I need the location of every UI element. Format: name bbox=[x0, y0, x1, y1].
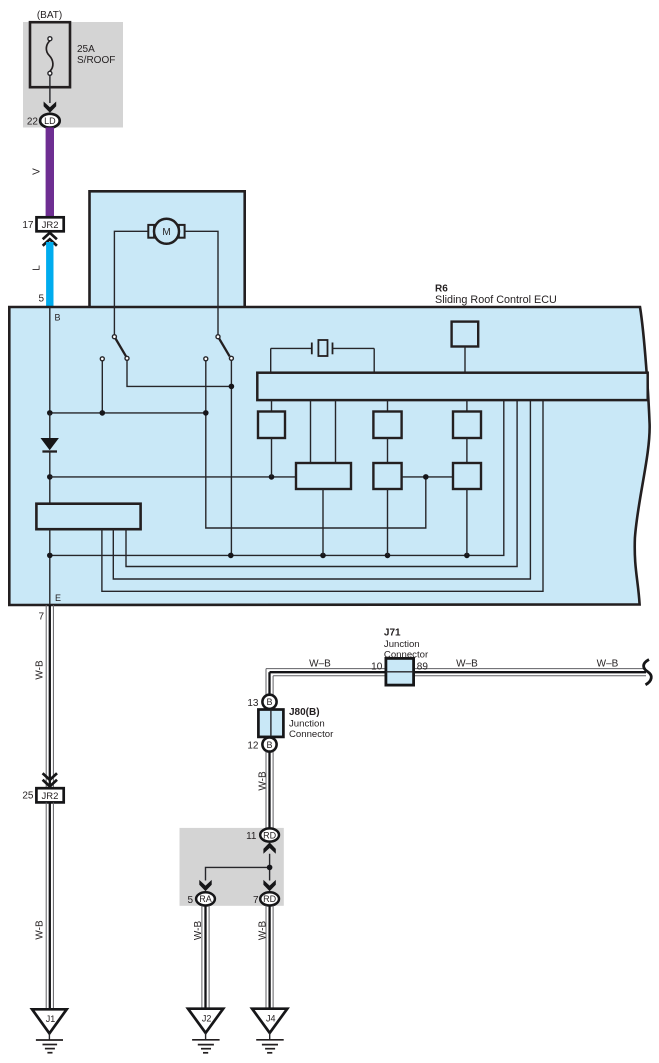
box U3 bbox=[258, 412, 285, 439]
svg-text:J80(B): J80(B) bbox=[289, 707, 320, 718]
junction branch bbox=[267, 865, 273, 871]
svg-text:RD: RD bbox=[263, 894, 276, 904]
wire W-B horizontal run bbox=[266, 669, 646, 676]
wire bus to U3 bbox=[271, 400, 273, 411]
svg-text:(BAT): (BAT) bbox=[37, 10, 62, 21]
connector arrow into LD bbox=[44, 102, 57, 113]
wire diode row horizontal bbox=[50, 476, 296, 478]
ECU R6 box bbox=[9, 307, 649, 605]
wire to diode bbox=[49, 413, 51, 438]
wire U2 loop b bbox=[113, 400, 530, 579]
svg-text:7: 7 bbox=[38, 612, 44, 623]
svg-text:M: M bbox=[162, 227, 170, 238]
connector arrow into RA5 bbox=[199, 880, 211, 891]
shield gray box bbox=[180, 828, 284, 906]
pin B wire bbox=[49, 307, 51, 413]
svg-text:S/ROOF: S/ROOF bbox=[77, 55, 115, 66]
wire U8 to bus bbox=[464, 347, 466, 373]
svg-text:B: B bbox=[266, 740, 272, 750]
motor M1 bbox=[148, 219, 184, 244]
wire E pin down bbox=[49, 529, 51, 605]
junction loop tap bbox=[423, 474, 429, 480]
svg-text:89: 89 bbox=[417, 661, 429, 672]
wire U7 to U9 bbox=[466, 438, 468, 463]
junction connector J80(B) bbox=[258, 710, 283, 737]
box U7 bbox=[453, 412, 481, 439]
connector arrow up into RD11 bbox=[263, 842, 275, 853]
wire RD11 branch bbox=[206, 854, 270, 881]
fuse 25A S/ROOF bbox=[30, 22, 115, 87]
junction B row bbox=[47, 410, 53, 416]
chevron into JR2 lower bbox=[43, 773, 57, 786]
wire U2 loop c bbox=[102, 400, 543, 591]
junction JR2 (top) bbox=[37, 217, 64, 231]
bus bar bbox=[257, 373, 647, 400]
ground J1 bbox=[32, 1009, 67, 1052]
svg-text:5: 5 bbox=[38, 294, 44, 305]
svg-text:LD: LD bbox=[44, 116, 56, 126]
svg-text:7: 7 bbox=[253, 895, 259, 906]
svg-text:13: 13 bbox=[247, 698, 259, 709]
svg-text:Junction: Junction bbox=[289, 718, 325, 729]
wire W-B pin7 lower bbox=[46, 802, 53, 1010]
wire SW1 fixed contact down bbox=[101, 361, 103, 413]
wire U9 down bbox=[466, 489, 468, 555]
switch SW2 moving contact bbox=[229, 356, 233, 360]
connector B (12) bbox=[262, 737, 276, 751]
fuse block shading bbox=[23, 22, 123, 128]
wire motor right to switch bbox=[185, 231, 218, 334]
svg-text:W-B: W-B bbox=[257, 921, 268, 941]
wire U3 down bbox=[271, 438, 273, 477]
wire L (cyan) bbox=[46, 242, 53, 308]
svg-text:22: 22 bbox=[27, 116, 39, 127]
switch SW1 fixed contact bbox=[100, 357, 104, 361]
connector LD bbox=[40, 114, 60, 128]
svg-text:W-B: W-B bbox=[193, 921, 204, 941]
svg-text:R6: R6 bbox=[435, 284, 448, 295]
connector RA (5) bbox=[196, 892, 215, 905]
motor housing box bbox=[90, 191, 245, 308]
svg-text:Connector: Connector bbox=[384, 649, 429, 660]
svg-text:RD: RD bbox=[263, 830, 276, 840]
wire ground bus row bbox=[50, 400, 504, 555]
ground J2 bbox=[188, 1009, 223, 1053]
wire W-B corner down to J80 bbox=[266, 669, 273, 695]
junction diode row bbox=[47, 474, 53, 480]
wire diode to junction bbox=[49, 452, 51, 504]
switch SW2 blade bbox=[219, 339, 230, 357]
wire U2 loop a bbox=[126, 400, 517, 566]
switch SW2 fixed contact bbox=[204, 357, 208, 361]
switch SW1 blade bbox=[116, 339, 127, 357]
connector RD (7) bbox=[260, 892, 279, 905]
wire W-B RD7 to J4 bbox=[266, 906, 273, 1010]
connector RD (11) bbox=[260, 828, 279, 841]
wire fuse to connector bbox=[49, 75, 51, 103]
wire U5 to U6 bbox=[387, 438, 389, 463]
svg-text:W-B: W-B bbox=[257, 771, 268, 791]
svg-text:Junction: Junction bbox=[384, 639, 420, 650]
wire bus to U4 pair bbox=[310, 400, 312, 463]
svg-text:L: L bbox=[32, 265, 43, 271]
box U8 top bbox=[452, 322, 479, 347]
wire SW2 blade down bbox=[230, 360, 232, 555]
wire W-B RA5 to J2 bbox=[202, 906, 209, 1010]
wire motor left to switch bbox=[114, 231, 148, 334]
connector B (13) bbox=[262, 695, 276, 709]
diode D1 bbox=[41, 438, 59, 452]
wire horizontal B row bbox=[50, 412, 206, 414]
wire U4 down bbox=[322, 489, 324, 555]
switch SW2 pivot bbox=[216, 335, 220, 339]
junctions ground row bbox=[47, 553, 53, 559]
svg-text:W–B: W–B bbox=[309, 658, 331, 669]
box U5 bbox=[373, 412, 401, 439]
svg-text:W–B: W–B bbox=[597, 658, 619, 669]
svg-text:J4: J4 bbox=[266, 1014, 276, 1024]
svg-text:Connector: Connector bbox=[289, 729, 334, 740]
svg-text:J1: J1 bbox=[46, 1014, 56, 1024]
switch SW1 moving contact bbox=[125, 356, 129, 360]
svg-text:10: 10 bbox=[371, 661, 383, 672]
svg-text:W–B: W–B bbox=[456, 658, 478, 669]
wire U6 to U9 bbox=[402, 476, 453, 478]
svg-text:W-B: W-B bbox=[35, 920, 46, 940]
junction JR2 (lower) bbox=[36, 788, 63, 802]
ground J4 bbox=[252, 1009, 287, 1053]
svg-text:Sliding Roof Control ECU: Sliding Roof Control ECU bbox=[435, 294, 557, 306]
svg-text:25A: 25A bbox=[77, 44, 95, 55]
break squiggle bbox=[644, 660, 652, 685]
wire bus to U5 bbox=[387, 400, 389, 411]
svg-text:17: 17 bbox=[22, 220, 34, 231]
box U9 bbox=[453, 463, 481, 489]
box U4 (wide) bbox=[296, 463, 351, 489]
wire V (violet) bbox=[46, 127, 54, 217]
svg-text:11: 11 bbox=[246, 831, 257, 842]
svg-text:J71: J71 bbox=[384, 628, 401, 639]
switch SW1 pivot bbox=[112, 335, 116, 339]
svg-text:B: B bbox=[266, 697, 272, 707]
svg-text:25: 25 bbox=[22, 791, 34, 802]
chevron into JR2 bbox=[43, 233, 57, 246]
connector arrow into RD7 bbox=[263, 880, 275, 891]
svg-text:W-B: W-B bbox=[35, 660, 46, 680]
junction at U3 bbox=[269, 474, 275, 480]
wire bus to U7 bbox=[466, 400, 468, 411]
wire U6 down bbox=[387, 489, 389, 555]
wire SW2 fixed contact down to loop bbox=[206, 361, 426, 528]
IC U2 (wide block) bbox=[36, 504, 140, 530]
svg-text:5: 5 bbox=[187, 895, 193, 906]
wire W-B pin7 upper bbox=[46, 605, 53, 788]
svg-text:E: E bbox=[55, 593, 61, 603]
svg-text:12: 12 bbox=[247, 741, 259, 752]
svg-text:RA: RA bbox=[199, 894, 212, 904]
junction blade wires bbox=[229, 384, 235, 390]
wire W-B J80 to RD bbox=[266, 752, 273, 829]
svg-text:JR2: JR2 bbox=[42, 220, 59, 231]
junction connector J71 bbox=[386, 658, 414, 685]
svg-text:JR2: JR2 bbox=[42, 791, 59, 802]
box U6 bbox=[373, 463, 401, 489]
svg-text:B: B bbox=[55, 313, 61, 323]
wire SW1 blade down and right bbox=[127, 360, 231, 386]
capacitor C1 bbox=[271, 340, 375, 373]
svg-text:V: V bbox=[32, 168, 43, 175]
svg-text:J2: J2 bbox=[202, 1014, 212, 1024]
